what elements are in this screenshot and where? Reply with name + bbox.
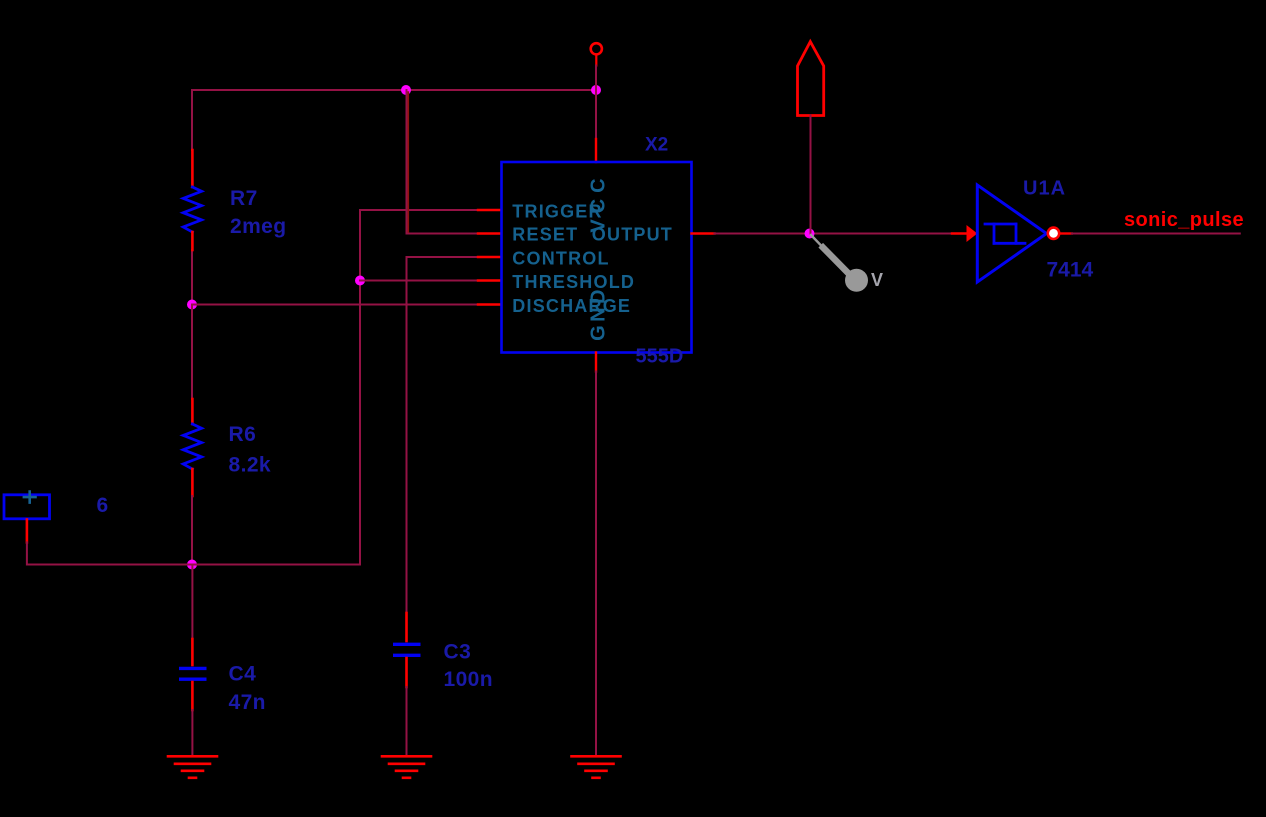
wire GND pin to ground: [595, 372, 597, 756]
pin GND lead (pin 1): [595, 353, 597, 372]
svg-text:RESET: RESET: [512, 224, 578, 244]
op-amp U1A inverter triangle: [977, 185, 1046, 282]
svg-text:R6: R6: [229, 423, 257, 446]
ground under IC: [572, 756, 621, 778]
svg-text:V: V: [871, 270, 883, 290]
wire THRESHOLD: [360, 280, 478, 282]
VCC terminal lead: [595, 56, 597, 66]
pin VCC lead into IC (pin 8): [595, 139, 597, 162]
wire C3 to ground: [406, 687, 408, 755]
probe arrow terminal: [798, 42, 824, 116]
wire DISCHARGE node down to R6: [191, 305, 193, 400]
svg-text:C3: C3: [444, 641, 472, 664]
wire TRIGGER: [360, 209, 478, 211]
capacitor C4: [181, 565, 205, 711]
svg-text:8.2k: 8.2k: [229, 454, 271, 477]
wire top VCC rail: [192, 89, 596, 91]
ground under C3: [382, 756, 431, 778]
hysteresis symbol: [985, 224, 1025, 243]
wire VCC circle to IC: [595, 66, 597, 140]
svg-text:C4: C4: [229, 663, 257, 686]
svg-text:7414: 7414: [1047, 259, 1094, 282]
pin inverter output lead: [1060, 232, 1072, 234]
svg-text:100n: 100n: [444, 668, 493, 691]
node VCC rail junction at x=406: [401, 85, 411, 95]
svg-text:2meg: 2meg: [230, 215, 286, 238]
svg-text:THRESHOLD: THRESHOLD: [512, 272, 635, 292]
svg-text:R7: R7: [230, 187, 258, 210]
node THRESHOLD junction: [355, 276, 365, 286]
svg-text:U1A: U1A: [1023, 178, 1066, 200]
svg-text:555D: 555D: [636, 346, 684, 368]
svg-text:DISCHARGE: DISCHARGE: [512, 296, 631, 316]
wire sonic_pulse net: [1072, 233, 1240, 235]
svg-text:6: 6: [97, 494, 109, 517]
wire OUTPUT to inverter: [715, 233, 953, 235]
battery V1: [4, 492, 50, 543]
pin THRESHOLD stub (pin 6): [478, 279, 501, 281]
wire R6 to lower node: [191, 496, 193, 565]
svg-text:47n: 47n: [229, 691, 266, 714]
voltage probe V: [811, 235, 883, 292]
VCC terminal circle: [591, 43, 602, 54]
svg-text:CONTROL: CONTROL: [512, 248, 609, 268]
wire DISCHARGE: [192, 304, 478, 306]
ground under C4: [168, 756, 217, 778]
inverter input arrow: [967, 225, 978, 242]
pin OUTPUT stub (pin 3): [692, 232, 715, 234]
node VCC rail junction at x=596: [591, 85, 601, 95]
svg-text:sonic_pulse: sonic_pulse: [1124, 209, 1244, 231]
node lower junction: [187, 560, 197, 570]
wire battery to bottom rail: [27, 542, 360, 564]
inverter output bubble: [1048, 228, 1059, 239]
pin CONTROL stub (pin 5): [478, 256, 501, 258]
wire into inverter input: [952, 232, 967, 234]
wire C4 to ground: [191, 710, 193, 755]
wire CONTROL to C3: [407, 257, 479, 613]
capacitor C3: [395, 613, 419, 687]
resistor R7: [183, 150, 201, 250]
svg-text:VCC: VCC: [588, 172, 610, 232]
svg-text:X2: X2: [645, 135, 668, 156]
node DISCHARGE junction: [187, 300, 197, 310]
pin TRIGGER stub (pin 2): [478, 209, 501, 211]
node output junction: [805, 229, 815, 239]
wire R7 bottom to DISCHARGE node: [191, 250, 193, 305]
pin DISCHARGE stub (pin 7): [478, 303, 501, 305]
pin RESET stub (pin 4): [478, 232, 501, 234]
svg-text:GND: GND: [588, 286, 610, 341]
wire left vertical from rail to R7: [191, 90, 193, 150]
op-amp X2 555 timer body: [502, 162, 692, 353]
wire RESET from rail junction: [407, 90, 479, 234]
wire bottom rail up to trigger/threshold: [359, 210, 361, 565]
resistor R6: [183, 399, 201, 496]
wire probe to output node: [810, 116, 812, 234]
